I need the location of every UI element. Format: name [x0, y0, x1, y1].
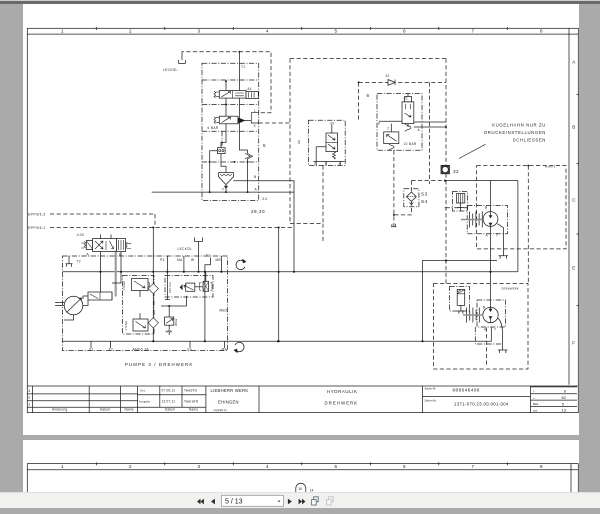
svg-text:220 bar: 220 bar	[168, 282, 172, 293]
svg-text:A: A	[255, 188, 258, 192]
svg-text:EHINGEN: EHINGEN	[218, 399, 239, 404]
svg-text:Name: Name	[189, 408, 198, 412]
svg-text:13.07.11: 13.07.11	[162, 400, 176, 404]
svg-text:4: 4	[266, 29, 269, 34]
svg-text:31: 31	[386, 74, 390, 78]
svg-text:S3: S3	[421, 192, 428, 197]
svg-text:MB: MB	[216, 258, 221, 262]
svg-text:5: 5	[562, 401, 565, 406]
svg-text:S4: S4	[421, 199, 428, 204]
svg-text:copyright (c): copyright (c)	[214, 409, 227, 412]
svg-text:B: B	[485, 206, 487, 210]
svg-text:B: B	[119, 253, 121, 257]
svg-text:HYDRAULIK: HYDRAULIK	[327, 389, 358, 394]
svg-text:5: 5	[335, 464, 338, 469]
svg-text:13: 13	[562, 408, 567, 413]
svg-text:F: F	[572, 341, 575, 346]
svg-text:EPP3/6.1: EPP3/6.1	[28, 226, 46, 230]
svg-text:X: X	[254, 124, 257, 128]
svg-text:DREHWERK: DREHWERK	[502, 287, 520, 291]
svg-text:3: 3	[198, 464, 201, 469]
svg-text:2: 2	[28, 396, 30, 400]
svg-text:29,30: 29,30	[251, 209, 265, 214]
svg-text:sms/6.5: sms/6.5	[545, 164, 556, 168]
svg-text:T: T	[325, 162, 327, 166]
svg-text:7: 7	[472, 464, 475, 469]
svg-text:6: 6	[403, 464, 406, 469]
svg-text:38 bar: 38 bar	[174, 319, 178, 326]
svg-text:X2: X2	[109, 348, 114, 352]
svg-text:TwedTlx: TwedTlx	[184, 389, 197, 393]
svg-text:8: 8	[540, 464, 543, 469]
svg-text:5: 5	[263, 143, 266, 148]
svg-text:1: 1	[28, 403, 30, 407]
svg-text:T2: T2	[77, 260, 81, 264]
svg-text:MA: MA	[177, 258, 183, 262]
svg-text:6 BAR: 6 BAR	[208, 126, 219, 130]
svg-text:-K33: -K33	[76, 233, 84, 237]
svg-text:TweraFD: TweraFD	[184, 400, 199, 404]
svg-text:Datum: Datum	[165, 408, 176, 412]
svg-text:LIEBHERR WERK: LIEBHERR WERK	[211, 388, 249, 393]
svg-text:A: A	[572, 60, 576, 65]
svg-text:von: von	[533, 409, 538, 412]
svg-text:P: P	[378, 122, 380, 126]
svg-text:5: 5	[335, 29, 338, 34]
svg-text:173 bar: 173 bar	[122, 281, 126, 290]
svg-text:1371-070.23.00.001-004: 1371-070.23.00.001-004	[454, 402, 509, 407]
svg-text:5 / 13: 5 / 13	[225, 499, 243, 506]
svg-text:07.06.11: 07.06.11	[162, 389, 176, 393]
svg-text:B: B	[572, 125, 575, 130]
svg-text:T1: T1	[206, 254, 210, 258]
svg-text:LECKÖL: LECKÖL	[178, 247, 193, 251]
svg-text:C: C	[572, 198, 576, 203]
svg-text:8: 8	[540, 29, 543, 34]
svg-text:7: 7	[472, 29, 475, 34]
svg-text:Gez.: Gez.	[140, 389, 146, 392]
svg-text:T: T	[496, 234, 498, 238]
svg-text:32: 32	[453, 169, 459, 174]
svg-text:10: 10	[298, 487, 302, 491]
svg-text:T: T	[387, 127, 389, 131]
svg-text:9: 9	[564, 389, 567, 394]
svg-text:B: B	[254, 175, 256, 179]
svg-text:+: +	[533, 397, 535, 400]
svg-text:2: 2	[129, 29, 132, 34]
svg-text:DREHWERK: DREHWERK	[325, 400, 359, 405]
svg-text:10 BAR: 10 BAR	[404, 142, 417, 146]
svg-text:PUMPE 3 / DREHWERK: PUMPE 3 / DREHWERK	[125, 362, 193, 367]
svg-text:-44: -44	[246, 87, 252, 91]
svg-text:6: 6	[367, 93, 370, 98]
svg-text:DRUCKEINSTELLUNGEN: DRUCKEINSTELLUNGEN	[484, 130, 546, 135]
svg-text:6: 6	[403, 29, 406, 34]
svg-text:L: L	[254, 109, 256, 113]
svg-text:Name: Name	[125, 408, 134, 412]
svg-text:MA: MA	[222, 348, 228, 352]
svg-text:Sachn-Nr.: Sachn-Nr.	[425, 386, 437, 390]
svg-text:2: 2	[129, 464, 132, 469]
svg-text:SCHLIESSEN: SCHLIESSEN	[513, 138, 546, 143]
svg-text:KUGELHAHN NUR ZU: KUGELHAHN NUR ZU	[492, 123, 546, 128]
svg-text:B: B	[483, 306, 485, 310]
svg-text:P: P	[315, 162, 317, 166]
svg-text:X1: X1	[89, 348, 94, 352]
svg-text:Blatt: Blatt	[533, 402, 538, 406]
svg-text:-20: -20	[329, 122, 335, 126]
svg-text:=: =	[533, 390, 535, 393]
svg-text:988646408: 988646408	[453, 387, 480, 392]
svg-text:Zeichn-Nr.: Zeichn-Nr.	[425, 399, 437, 403]
svg-text:62: 62	[562, 395, 567, 400]
svg-text:MB3: MB3	[220, 309, 228, 313]
svg-text:4: 4	[266, 464, 269, 469]
svg-text:3: 3	[298, 140, 301, 145]
svg-text:Fa: Fa	[188, 348, 192, 352]
svg-text:173 bar: 173 bar	[124, 321, 128, 330]
svg-text:T1: T1	[241, 65, 245, 69]
svg-text:1: 1	[61, 29, 64, 34]
svg-text:3.0: 3.0	[262, 197, 267, 201]
svg-text:T: T	[494, 328, 496, 332]
svg-text:3: 3	[28, 389, 30, 393]
svg-text:3: 3	[198, 29, 201, 34]
svg-text:T: T	[222, 188, 224, 192]
svg-text:1: 1	[61, 464, 64, 469]
svg-text:EPP3/6.3: EPP3/6.3	[28, 213, 46, 217]
svg-text:A: A	[418, 128, 421, 132]
svg-text:E: E	[572, 266, 575, 271]
svg-text:W: W	[191, 258, 194, 262]
svg-text:Datum: Datum	[100, 408, 111, 412]
svg-text:Ausgabe: Ausgabe	[139, 400, 151, 403]
svg-text:P3: P3	[160, 258, 165, 262]
svg-text:-21: -21	[403, 97, 409, 101]
svg-text:LECKÖL: LECKÖL	[163, 68, 178, 72]
svg-text:AMVG 36: AMVG 36	[133, 348, 149, 352]
svg-text:Änderung: Änderung	[52, 408, 67, 412]
